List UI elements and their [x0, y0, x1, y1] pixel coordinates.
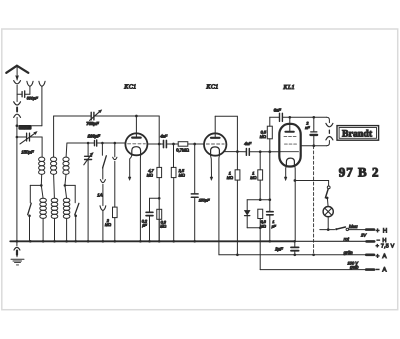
wire link to +A line	[313, 146, 315, 255]
antenna	[6, 66, 28, 73]
capacitor 150pF	[194, 144, 196, 193]
variable capacitor tuning	[87, 143, 89, 156]
svg-text:750pF: 750pF	[86, 121, 99, 126]
svg-text:1A: 1A	[97, 193, 102, 198]
resistor 0,3 Mohm group	[258, 209, 263, 218]
node cathode junction	[294, 179, 297, 182]
resistor 0,7 Mohm	[178, 142, 188, 147]
wire L5 bottom	[54, 218, 56, 241]
svg-text:500µF: 500µF	[19, 126, 28, 130]
capacitor 2nF output	[313, 117, 315, 131]
wire coil L3 top to grid line	[65, 143, 68, 157]
node antenna junction	[16, 124, 19, 127]
wire grid line tube1	[67, 142, 126, 144]
capacitor 500pF	[17, 93, 30, 95]
wire blau terminal with switch	[320, 229, 335, 231]
svg-text:MΩ: MΩ	[227, 175, 233, 180]
capacitor 4nF second	[245, 149, 247, 156]
svg-text:KL1: KL1	[282, 84, 295, 91]
resistor 500 ohm block	[18, 125, 31, 130]
tube KC1 second	[204, 133, 226, 155]
coil L4	[40, 198, 47, 218]
wire top feed line	[54, 115, 160, 117]
svg-text:+ 7,5 V: + 7,5 V	[376, 244, 395, 250]
coil L3	[63, 157, 69, 174]
svg-text:Brandt: Brandt	[342, 129, 373, 140]
svg-text:µF: µF	[142, 224, 147, 228]
jack fork A1	[27, 81, 33, 86]
svg-text:MΩ: MΩ	[250, 175, 256, 180]
coil L6	[63, 198, 70, 218]
wire L6 bottom	[66, 218, 68, 241]
capacitor 1uF group	[269, 200, 271, 212]
antenna jack pair lower	[14, 102, 21, 105]
lamp P1	[323, 207, 333, 217]
svg-text:+ A: + A	[376, 253, 388, 260]
svg-text:nF: nF	[305, 126, 310, 130]
svg-text:100 V: 100 V	[348, 260, 359, 265]
resistor 0,3 Mohm	[157, 209, 162, 219]
node top cap T1	[135, 115, 138, 118]
node group rail	[259, 198, 262, 201]
node anode T1	[158, 143, 161, 146]
svg-text:150pF: 150pF	[21, 150, 34, 155]
wire group bottom rail	[247, 227, 260, 229]
svg-text:100pF: 100pF	[88, 134, 101, 139]
node KL1 top cap	[288, 116, 291, 119]
wire L4 top	[41, 185, 43, 198]
svg-text:0,7MΩ: 0,7MΩ	[176, 147, 190, 152]
ground bus	[10, 240, 294, 242]
ground symbol	[16, 241, 18, 245]
antenna jack upper	[14, 81, 21, 84]
svg-text:blau: blau	[349, 224, 358, 229]
resistor 2,5 Mohm	[173, 144, 175, 167]
wire L6 top	[65, 185, 67, 198]
wire group top rail	[247, 199, 270, 201]
svg-text:MΩ: MΩ	[260, 224, 266, 228]
node	[172, 143, 175, 146]
switch S3 with fuse 1A	[101, 143, 103, 155]
svg-text:500pF: 500pF	[27, 96, 39, 101]
tube KC1 first	[125, 133, 147, 155]
wire L4 bottom	[42, 218, 44, 241]
node grid KL1	[259, 150, 262, 153]
capacitor 4nF	[163, 140, 165, 147]
wire KL1 anode line	[301, 145, 327, 147]
svg-text:MΩ: MΩ	[179, 172, 185, 177]
resistor 1 Mohm second	[259, 152, 261, 170]
svg-text:2µF: 2µF	[274, 247, 283, 252]
switch S1	[29, 185, 31, 202]
wire grid line KL1	[237, 151, 280, 153]
svg-text:MΩ: MΩ	[105, 222, 111, 227]
svg-text:− A: − A	[376, 267, 388, 274]
resistor 2 Mohm	[114, 143, 116, 157]
svg-text:4nF: 4nF	[160, 134, 167, 139]
switch S4 power	[327, 186, 330, 189]
tube KL1	[279, 124, 300, 167]
capacitor 6nF	[279, 113, 281, 121]
wire anode feed line	[270, 116, 327, 118]
svg-text:MΩ: MΩ	[260, 134, 266, 139]
diode D1	[246, 200, 248, 210]
svg-text:4nF: 4nF	[244, 141, 251, 146]
wire anode T1	[147, 143, 203, 145]
jack fork A2	[39, 81, 45, 86]
Brandt logo box	[337, 126, 379, 141]
variable capacitor 150pF	[17, 136, 42, 138]
wire gelb terminal	[260, 269, 366, 271]
wire gruen terminal	[219, 254, 366, 256]
svg-text:6nF: 6nF	[274, 108, 282, 113]
svg-text:0,2: 0,2	[142, 219, 148, 223]
node bus junctions	[16, 240, 296, 243]
wire coil bottoms	[40, 174, 42, 185]
wire to ground bus	[16, 126, 18, 242]
capacitor 2uF	[294, 241, 296, 247]
wire jog row right	[65, 184, 75, 186]
resistor 0,5 Mohm	[269, 117, 271, 126]
svg-text:rot: rot	[344, 237, 350, 242]
node jog	[158, 197, 161, 200]
wire jog row left	[30, 184, 41, 186]
wire coil L2 top feed	[53, 116, 55, 157]
svg-text:KC1: KC1	[123, 83, 136, 90]
svg-text:+ H: + H	[376, 227, 388, 234]
capacitor 0,2uF	[146, 211, 153, 213]
coil L1	[39, 157, 45, 174]
svg-text:150pF: 150pF	[199, 198, 210, 202]
wire	[16, 85, 18, 101]
node grid dots	[87, 142, 90, 145]
wire to gelb terminal	[259, 228, 261, 270]
svg-text:µF: µF	[272, 224, 277, 228]
switch S2	[74, 185, 76, 202]
coil L2	[51, 157, 57, 174]
node tube2 anode	[236, 150, 239, 153]
wire to coil A	[41, 137, 43, 157]
wire to power switch	[295, 181, 329, 186]
svg-text:MΩ: MΩ	[160, 225, 166, 229]
svg-text:97 B 2: 97 B 2	[339, 164, 380, 179]
svg-text:KC1: KC1	[205, 84, 218, 91]
wire top line corner down	[158, 116, 160, 144]
svg-text:2: 2	[305, 122, 309, 126]
speaker jack	[327, 117, 330, 122]
node lamp to blau	[327, 228, 330, 231]
wire antenna lead	[16, 66, 18, 80]
variable capacitor 750pF	[90, 112, 92, 120]
node	[193, 143, 196, 146]
svg-text:MΩ: MΩ	[147, 172, 153, 177]
resistor 1 Mohm first	[236, 152, 238, 170]
wire tube2 top cap	[215, 116, 237, 151]
resistor 4,7 Mohm	[158, 144, 160, 167]
capacitor 100pF	[94, 141, 96, 146]
svg-text:2V: 2V	[360, 233, 367, 238]
coil L5	[51, 198, 58, 218]
svg-text:grün: grün	[344, 250, 354, 255]
